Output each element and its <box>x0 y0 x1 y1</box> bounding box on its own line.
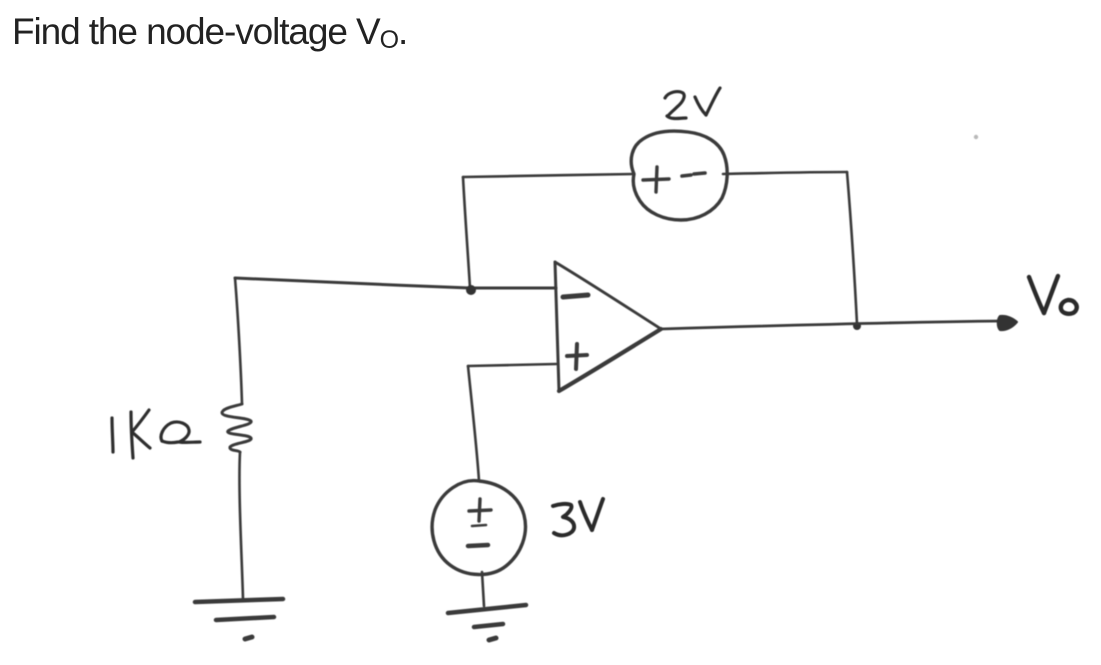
wire feedback vertical right <box>847 172 857 324</box>
title text <box>12 11 407 53</box>
ground bottom bar2 <box>474 624 503 627</box>
wire top-left feedback horizontal <box>463 174 634 177</box>
label 1K ohm handwritten <box>112 410 200 458</box>
wire top-right feedback horizontal <box>723 172 847 174</box>
ground left bar1 <box>195 599 283 602</box>
wire below 3V source <box>482 572 484 606</box>
op-amp U1 triangle <box>555 262 559 391</box>
ground bottom bar1 <box>448 605 526 613</box>
resistor R 1K ohm zigzag <box>222 404 251 452</box>
op-amp plus input sign <box>567 344 587 369</box>
wire inverting input horizontal <box>235 278 556 288</box>
wire left vertical to resistor <box>235 278 242 404</box>
voltage source VS2 2V blob outline <box>631 131 727 220</box>
node A junction dot <box>466 285 476 295</box>
output arrowhead <box>998 316 1017 330</box>
op-amp minus input bar <box>563 295 588 297</box>
3V source minus sign <box>468 545 488 546</box>
wire output <box>661 321 1003 329</box>
ground bottom dot <box>489 638 496 640</box>
3V source plus sign <box>469 499 491 526</box>
ground left bar2 <box>216 617 274 620</box>
label 3V handwritten <box>553 499 603 535</box>
faint scan speck <box>974 135 978 139</box>
label 2V handwritten <box>665 88 720 119</box>
wire below resistor <box>239 452 243 599</box>
voltage source VS1 3V circle <box>432 481 525 575</box>
label Vo handwritten <box>1029 276 1077 314</box>
wire noninverting input horizontal <box>468 364 556 366</box>
2V source minus sign <box>682 173 705 176</box>
ground left dot <box>245 637 252 639</box>
node B junction blob <box>853 322 861 330</box>
wire feedback vertical left <box>463 177 470 288</box>
2V source plus sign <box>643 167 669 192</box>
wire noninverting vertical to 3V source <box>468 366 479 481</box>
